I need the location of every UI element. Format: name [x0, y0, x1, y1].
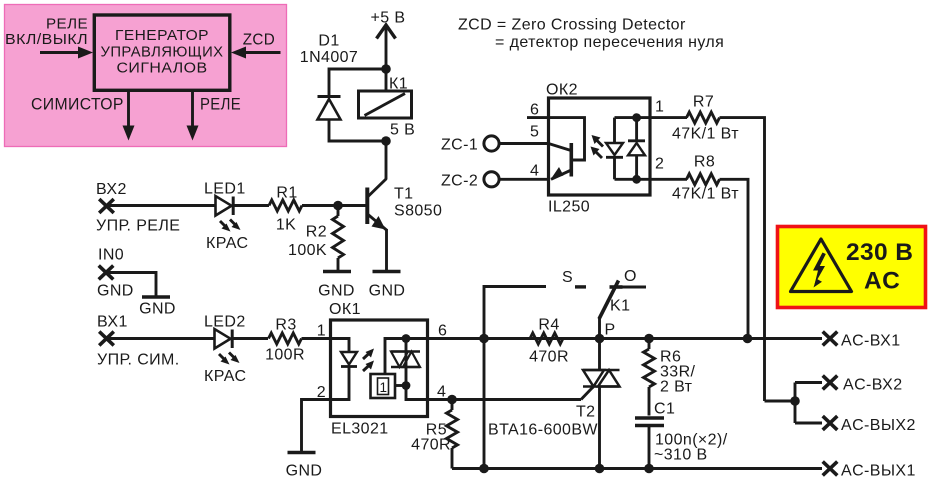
ground (OK1 pin2) [286, 453, 323, 478]
arrow РЕЛЕ ВКЛ/ВЫКЛ into block [40, 47, 93, 59]
wire T2 to bottom bus [598, 387, 601, 469]
generator block box [94, 15, 230, 90]
resistor R6 [648, 339, 651, 350]
svg-text:4: 4 [437, 384, 446, 401]
svg-text:AC-ВЫХ2: AC-ВЫХ2 [841, 417, 916, 434]
svg-text:LED1: LED1 [204, 181, 246, 198]
terminal AC-ВЫХ2 [823, 416, 916, 434]
node bus/R6 [644, 334, 654, 344]
wire LED1 to R1 [233, 204, 269, 207]
node P [595, 334, 605, 344]
label РЕЛЕ ВКЛ/ВЫКЛ [5, 16, 88, 48]
label R8 47K/1 Вт [672, 154, 739, 203]
svg-text:GND: GND [286, 463, 323, 478]
svg-text:K1: K1 [610, 298, 630, 315]
wire IN0 to ground [106, 273, 156, 297]
svg-text:2: 2 [655, 156, 664, 173]
svg-text:LED2: LED2 [204, 314, 246, 331]
svg-text:AC-ВХ1: AC-ВХ1 [841, 333, 901, 350]
label D1 1N4007 [300, 33, 358, 67]
wire ВХ1 to LED2 [107, 337, 215, 340]
svg-text:ОК1: ОК1 [329, 301, 361, 318]
resistor R8 [687, 174, 720, 185]
legend ZCD definition [458, 17, 724, 52]
O contact [611, 286, 646, 289]
OK1 phototriac [385, 334, 428, 399]
svg-text:1: 1 [317, 323, 326, 340]
svg-text:УПР. СИМ.: УПР. СИМ. [97, 352, 180, 369]
svg-text:470R: 470R [411, 437, 451, 454]
svg-text:ВКЛ/ВЫКЛ: ВКЛ/ВЫКЛ [5, 32, 88, 48]
svg-text:100R: 100R [265, 347, 305, 364]
svg-text:GND: GND [318, 283, 355, 300]
svg-text:O: O [624, 268, 637, 285]
switch branch lower vertical [483, 339, 486, 469]
terminal AC-ВХ2 [823, 376, 903, 394]
resistor R7 [687, 112, 720, 123]
ground (R2) [318, 272, 355, 300]
svg-text:ZC-1: ZC-1 [441, 137, 478, 154]
svg-text:СИМИСТОР: СИМИСТОР [31, 95, 124, 114]
svg-text:BTA16-600BW: BTA16-600BW [488, 422, 598, 439]
svg-text:ГЕНЕРАТОР: ГЕНЕРАТОР [115, 28, 209, 44]
svg-text:GND: GND [139, 301, 176, 318]
OK2 back-to-back LEDs [606, 113, 650, 184]
svg-text:R4: R4 [538, 317, 559, 334]
warning triangle [791, 239, 852, 292]
pink block-diagram panel [5, 5, 287, 147]
terminal IN0 / GND [97, 247, 134, 300]
wire R3 to OK1 pin1 [302, 337, 331, 340]
svg-text:~310 В: ~310 В [654, 447, 708, 464]
OK1 gate block "1" [371, 374, 407, 398]
resistor R1 [269, 200, 302, 211]
bottom bus to AC-ВЫХ1 [452, 467, 822, 470]
OK1 light arrows [363, 349, 374, 372]
svg-text:УПРАВЛЯЮЩИХ: УПРАВЛЯЮЩИХ [101, 45, 224, 61]
svg-text:AC: AC [864, 268, 900, 295]
svg-text:47K/1 Вт: 47K/1 Вт [672, 186, 739, 203]
svg-text:1: 1 [380, 380, 388, 395]
label LED1 / КРАС [204, 181, 248, 253]
svg-text:5 В: 5 В [390, 122, 415, 139]
label R4 470R [529, 317, 569, 366]
S contact stub [575, 285, 586, 288]
svg-text:КРАС: КРАС [206, 235, 248, 252]
bracket from R7 drop [765, 400, 796, 403]
svg-text:GND: GND [369, 283, 406, 300]
svg-text:= детектор пересечения нуля: = детектор пересечения нуля [495, 34, 724, 51]
label R3 100R [265, 317, 305, 364]
svg-text:470R: 470R [529, 349, 569, 366]
node bottom/switch [479, 464, 489, 474]
wire OK1 pin4 to R5/T2 gate [428, 398, 581, 401]
svg-text:S: S [562, 269, 573, 286]
node bus/R8-drop [743, 334, 753, 344]
resistor R4 [530, 333, 563, 344]
svg-text:IN0: IN0 [98, 247, 124, 264]
svg-text:R7: R7 [693, 94, 714, 111]
resistor R2 [337, 206, 340, 217]
svg-text:230 В: 230 В [846, 239, 913, 266]
resistor R5 [451, 400, 454, 411]
svg-text:IL250: IL250 [548, 199, 590, 216]
terminal ZC-1 [441, 136, 499, 154]
wire ВХ2 to LED1 [107, 204, 216, 207]
svg-text:ВХ2: ВХ2 [96, 181, 127, 198]
ground (IN0) [139, 297, 176, 318]
wire D1 bottom to node [329, 120, 386, 142]
optocoupler OK1 box [331, 320, 428, 417]
wire R7 to drop x764 [720, 118, 765, 401]
node pin4/R5 [447, 395, 457, 405]
relay coil K1 box [359, 69, 412, 118]
svg-text:К1: К1 [389, 76, 408, 93]
OK1 internal LED [331, 339, 358, 400]
LED2 (red) [215, 329, 240, 365]
svg-text:P: P [605, 322, 616, 339]
svg-text:AC-ВХ2: AC-ВХ2 [843, 377, 903, 394]
svg-text:2 Вт: 2 Вт [660, 379, 693, 396]
node R1/R2/base [333, 201, 343, 211]
svg-text:S8050: S8050 [394, 203, 442, 220]
svg-text:R3: R3 [275, 317, 296, 334]
svg-text:T2: T2 [576, 404, 595, 421]
svg-text:СИГНАЛОВ: СИГНАЛОВ [117, 61, 208, 77]
pin 6 stub OK2 [527, 116, 549, 119]
wire OK1 pin2 to ground [302, 400, 331, 452]
label R6 33R/ 2 Вт [660, 349, 696, 396]
pin labels 1 2 OK2 [655, 99, 664, 173]
wire P to T2 [598, 339, 601, 370]
svg-text:EL3021: EL3021 [331, 421, 389, 438]
wire node to D1 top [329, 69, 386, 95]
bracket verticals and stubs [795, 383, 822, 424]
node bracket [790, 396, 800, 406]
lightning bolt [813, 253, 826, 285]
diode D1 (flyback) [318, 97, 341, 120]
svg-text:C1: C1 [654, 401, 675, 418]
main bus OK1 pin6 to AC-ВХ1 [428, 337, 822, 340]
svg-text:100K: 100K [288, 242, 327, 259]
wire T1 emitter to GND [385, 229, 388, 270]
warning 230V AC box [778, 227, 926, 308]
svg-text:ОК2: ОК2 [546, 82, 578, 99]
OK2 light arrows [591, 135, 604, 158]
arrow ZCD into block [231, 47, 281, 59]
wire +5V down to node [385, 27, 388, 69]
resistor R3 [269, 333, 302, 344]
svg-text:6: 6 [530, 102, 539, 119]
wire R8 to drop x748 [720, 179, 749, 338]
svg-text:ZCD: ZCD [243, 32, 276, 49]
svg-text:D1: D1 [318, 33, 339, 50]
svg-text:5: 5 [530, 124, 539, 141]
label R7 47K/1 Вт [672, 94, 739, 143]
wire R1 to T1 base [302, 204, 367, 207]
label R5 470R [411, 422, 451, 454]
wire pin2 to R8 [650, 178, 687, 181]
node relay bottom [381, 136, 391, 146]
node bottom/C1 [644, 464, 654, 474]
wire pin1 to R7 [650, 116, 687, 119]
svg-text:R1: R1 [276, 185, 297, 202]
terminal AC-ВХ1 [823, 332, 901, 350]
label T1 S8050 [394, 186, 442, 220]
svg-text:УПР. РЕЛЕ: УПР. РЕЛЕ [96, 218, 180, 235]
arrow to РЕЛЕ [187, 91, 199, 141]
svg-text:GND: GND [97, 283, 134, 300]
triac T2 [581, 370, 620, 400]
terminal AC-ВЫХ1 [823, 462, 916, 478]
wire ZC-2 to pin4 [499, 178, 549, 181]
optocoupler OK2 box [549, 98, 651, 195]
svg-text:T1: T1 [394, 186, 413, 203]
capacitor C1 [635, 418, 664, 469]
svg-text:4: 4 [530, 163, 539, 180]
svg-text:1K: 1K [276, 217, 296, 234]
switch branch vertical [484, 287, 546, 339]
OK2 phototransistor [549, 118, 585, 180]
node bus/switch branch [479, 334, 489, 344]
transistor T1 [367, 179, 386, 231]
node: +5V / D1 / relay top [381, 64, 391, 74]
terminal ZC-2 [441, 172, 499, 190]
arrow to СИМИСТОР [123, 91, 135, 141]
wire relay to T1 collector [385, 141, 388, 179]
wire ZC-1 to pin5 [499, 142, 549, 145]
svg-text:РЕЛЕ: РЕЛЕ [200, 95, 241, 114]
svg-text:1N4007: 1N4007 [300, 49, 358, 66]
label R2 100K [288, 224, 327, 260]
svg-text:ВХ1: ВХ1 [97, 314, 128, 331]
svg-text:AC-ВЫХ1: AC-ВЫХ1 [841, 463, 916, 478]
label LED2 / КРАС [204, 314, 246, 386]
svg-text:ZCD = Zero Crossing Detector: ZCD = Zero Crossing Detector [458, 17, 686, 34]
svg-text:+5 В: +5 В [371, 10, 406, 27]
node bottom/T2 [595, 464, 605, 474]
wire LED2 to R3 [232, 337, 268, 340]
label R1 1K [276, 185, 298, 234]
svg-text:R8: R8 [694, 154, 715, 171]
+5V arrow [377, 25, 396, 39]
svg-text:ZC-2: ZC-2 [441, 173, 478, 190]
pin labels 6 5 4 OK2 [530, 102, 539, 180]
svg-text:6: 6 [438, 323, 447, 340]
ground (T1 emitter) [369, 272, 406, 300]
terminal ВХ2 [96, 181, 180, 235]
switch blade K1 [599, 281, 619, 339]
terminal ВХ1 [97, 314, 180, 369]
svg-text:КРАС: КРАС [204, 368, 246, 385]
svg-text:1: 1 [655, 99, 664, 116]
svg-text:R2: R2 [306, 224, 327, 241]
svg-text:47K/1 Вт: 47K/1 Вт [672, 126, 739, 143]
label 100n(×2)/ ~310 В [654, 432, 728, 464]
svg-text:РЕЛЕ: РЕЛЕ [46, 16, 88, 32]
LED1 (red) [216, 196, 241, 232]
